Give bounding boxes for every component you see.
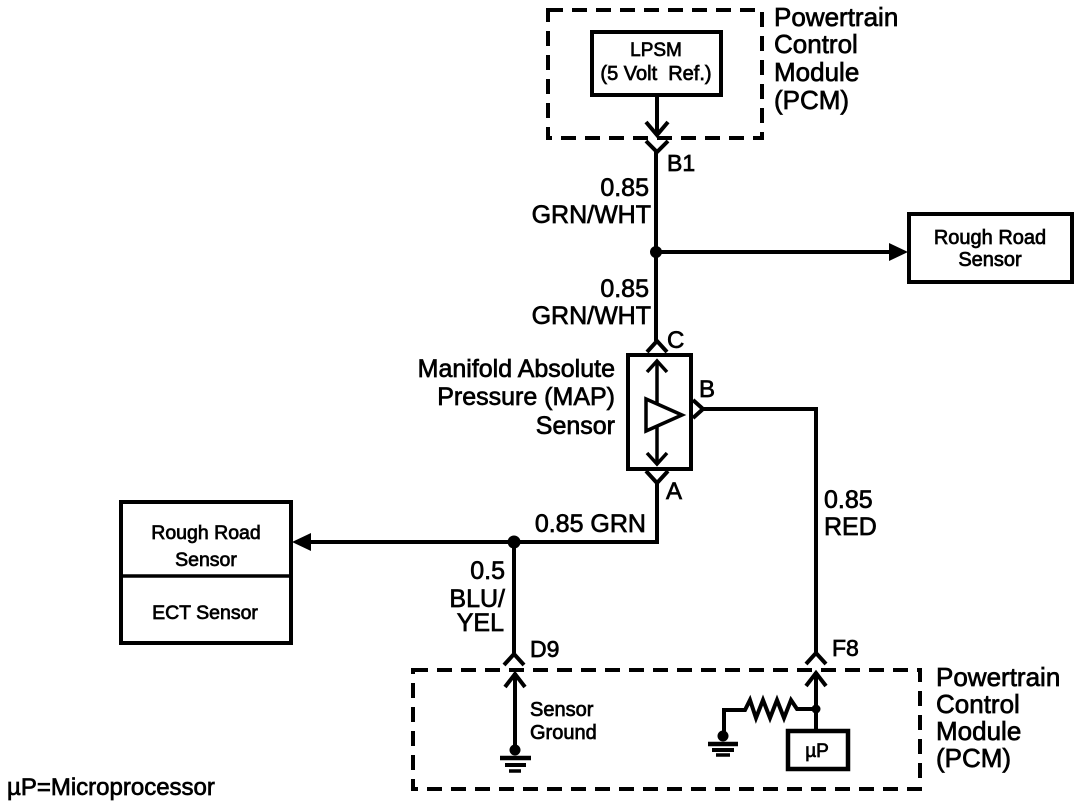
wire: pin B right then down to F8 xyxy=(703,409,816,652)
svg-text:(5 Volt Ref.): (5 Volt Ref.) xyxy=(600,63,711,85)
svg-text:Sensor: Sensor xyxy=(536,412,615,440)
svg-text:B1: B1 xyxy=(667,150,695,176)
svg-text:LPSM: LPSM xyxy=(630,40,682,61)
PCM dashed box (bottom) xyxy=(413,670,920,789)
resistor R1 (pull-up to microprocessor) xyxy=(724,700,816,732)
label: Powertrain Control Module (PCM) top right xyxy=(774,2,898,115)
node: junction at microprocessor xyxy=(812,705,821,714)
svg-text:0.5: 0.5 xyxy=(470,557,505,585)
value label: 0.85 RED xyxy=(824,486,877,541)
svg-text:0.85: 0.85 xyxy=(600,174,649,202)
svg-text:YEL: YEL xyxy=(457,609,504,637)
svg-text:Module: Module xyxy=(774,57,859,87)
svg-text:Pressure (MAP): Pressure (MAP) xyxy=(437,383,615,411)
node: splice junction 1 xyxy=(650,246,662,258)
ground: resistor ground symbol xyxy=(708,731,738,756)
connector terminal B (female fork) xyxy=(693,400,703,418)
wire: B1 down to splice junction xyxy=(654,152,658,252)
connector terminal D9 (female fork) xyxy=(504,654,524,665)
connector terminal C (female fork) xyxy=(647,341,667,352)
PCM dashed box (top) xyxy=(548,10,762,138)
wire: F8 up arrow inside PCM xyxy=(806,672,826,709)
wire: junction 1 to right Rough Road Sensor, arrow right xyxy=(656,243,908,261)
svg-text:ECT Sensor: ECT Sensor xyxy=(152,602,258,624)
svg-text:RED: RED xyxy=(824,513,877,541)
connector terminal F8 (female fork) xyxy=(806,653,826,664)
svg-text:0.85: 0.85 xyxy=(600,275,649,303)
svg-text:Sensor: Sensor xyxy=(958,249,1022,271)
svg-text:(PCM): (PCM) xyxy=(774,85,849,115)
LPSM (5 Volt Ref.) box xyxy=(592,32,721,95)
svg-text:(PCM): (PCM) xyxy=(936,743,1011,773)
svg-text:Control: Control xyxy=(774,29,858,59)
microprocessor box U2 (µP) xyxy=(788,731,848,769)
svg-text:F8: F8 xyxy=(832,635,859,661)
wire: sensor ground, up arrow to D9 xyxy=(505,673,525,746)
value label: 0.5 BLU/YEL xyxy=(449,557,505,637)
svg-text:B: B xyxy=(699,376,715,403)
svg-text:Powertrain: Powertrain xyxy=(774,2,898,32)
wire: junction down to microprocessor xyxy=(814,709,818,731)
svg-text:D9: D9 xyxy=(530,636,559,662)
svg-text:Sensor: Sensor xyxy=(175,549,237,571)
svg-text:Rough Road: Rough Road xyxy=(934,227,1046,249)
svg-text:GRN/WHT: GRN/WHT xyxy=(532,201,651,229)
Rough Road Sensor box (right) xyxy=(909,214,1072,282)
wire: pin A down then left to splice junction 2 xyxy=(514,483,657,542)
svg-text:0.85 GRN: 0.85 GRN xyxy=(535,510,646,538)
wire: LPSM output, down arrow to B1 xyxy=(646,95,668,135)
connector terminal B1 (female fork) xyxy=(646,141,668,152)
svg-text:Control: Control xyxy=(936,689,1020,719)
wire: internal signal line with up/down arrows xyxy=(647,361,667,464)
wire: junction 2 to left sensor box, arrow left xyxy=(292,533,514,551)
svg-text:Ground: Ground xyxy=(530,722,597,744)
label: Manifold Absolute Pressure (MAP) Sensor xyxy=(418,355,615,440)
node: splice junction 2 xyxy=(508,536,521,549)
svg-text:µP=Microprocessor: µP=Microprocessor xyxy=(7,774,215,801)
svg-text:Powertrain: Powertrain xyxy=(936,662,1060,692)
label: Powertrain Control Module (PCM) bottom right xyxy=(936,662,1060,773)
wire: junction 2 down to D9 xyxy=(512,542,516,653)
Rough Road Sensor / ECT Sensor box (left) xyxy=(121,502,291,643)
svg-text:µP: µP xyxy=(805,741,829,762)
ground: sensor ground symbol xyxy=(500,745,531,772)
svg-text:GRN/WHT: GRN/WHT xyxy=(532,302,651,330)
svg-text:Manifold Absolute: Manifold Absolute xyxy=(418,355,615,383)
value label: 0.85 GRN/WHT (upper) xyxy=(532,174,651,229)
svg-text:Rough Road: Rough Road xyxy=(151,522,261,544)
wire: junction 1 down to MAP sensor pin C xyxy=(654,252,658,341)
op-amp triangle inside MAP sensor xyxy=(646,399,682,431)
svg-text:C: C xyxy=(667,327,684,354)
svg-text:Sensor: Sensor xyxy=(530,699,594,721)
svg-text:A: A xyxy=(666,478,682,505)
connector terminal A (female fork) xyxy=(646,471,668,483)
svg-text:0.85: 0.85 xyxy=(824,486,873,514)
value label: 0.85 GRN/WHT (lower) xyxy=(532,275,651,330)
label: Sensor Ground xyxy=(530,699,597,744)
MAP sensor box U1 xyxy=(628,355,691,469)
svg-text:Module: Module xyxy=(936,716,1021,746)
